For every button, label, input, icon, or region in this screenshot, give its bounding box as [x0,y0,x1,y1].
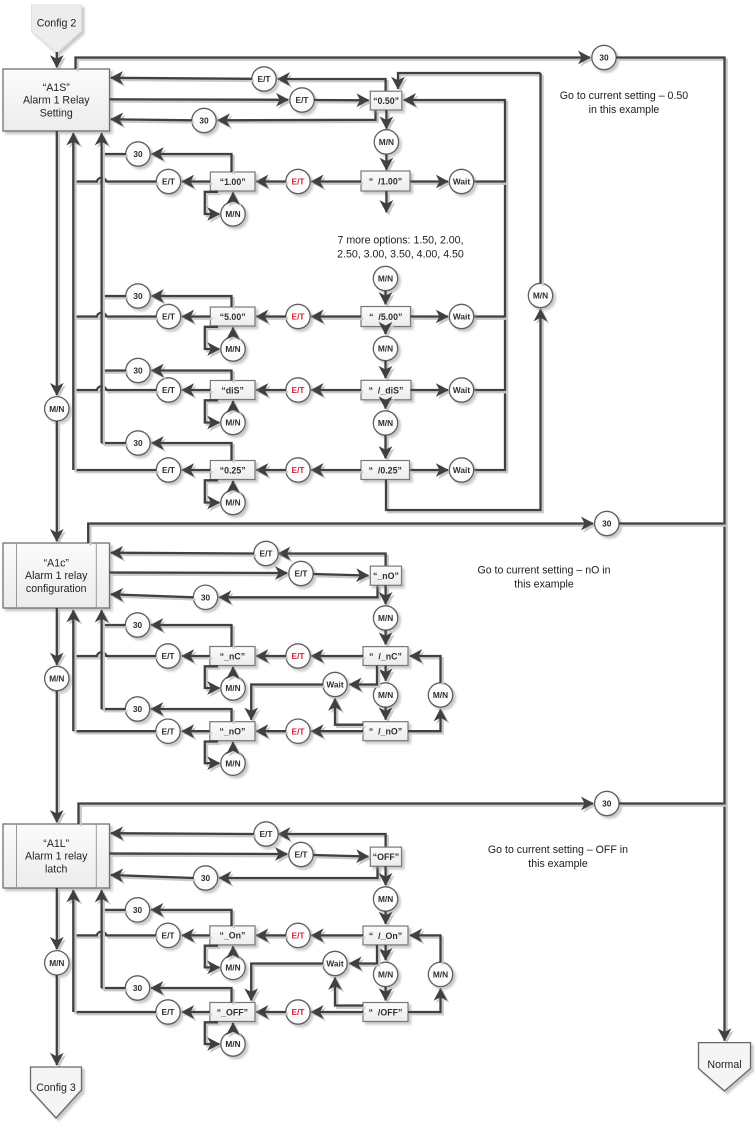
note go to current setting A1L [488,844,628,870]
wire M/N up into box _On A1L [233,946,235,957]
wire /_OFF to Wait bottom A1L [335,978,365,1008]
wire box diS to E/T [182,390,213,392]
wire A1L top to 30 [79,804,596,827]
svg-text:E/T: E/T [296,95,309,105]
wire M/N to /_nC A1c [386,630,388,647]
display box /0.25 [361,461,410,480]
svg-text:Alarm 1 Relay: Alarm 1 Relay [23,95,90,107]
svg-text:“ /0.25”: “ /0.25” [369,465,402,475]
circle Wait A1c [323,672,347,696]
svg-text:E/T: E/T [258,74,271,84]
wire /_OFF to red E/T A1L [311,1012,365,1014]
wire M/N to /5.00 [386,291,388,307]
svg-text:“0.25”: “0.25” [220,465,246,475]
wire 30 A1L to right rail [619,804,726,806]
svg-text:30: 30 [602,519,612,529]
wire top box to 30 row C A1L [219,866,380,880]
svg-text:30: 30 [133,620,143,630]
wire box diS top to 30 [152,371,234,383]
svg-text:Normal: Normal [707,1059,741,1071]
wire M/N rail up to return [541,73,543,286]
off-page connector Config 3 [31,1067,82,1118]
wire /1.00 to more options note [386,191,388,215]
svg-text:“1.00”: “1.00” [220,177,246,187]
wire red E/T to box _On A1L [256,935,288,937]
svg-text:30: 30 [201,592,211,602]
circle E/T row _On A1L [156,923,180,947]
wire box 0.25 top to 30 [152,443,234,463]
wire 0.50 to M/N [386,110,388,131]
svg-text:Setting: Setting [40,107,73,119]
svg-text:E/T: E/T [162,726,175,736]
svg-text:E/T: E/T [292,931,305,941]
circle M/N under box 0.25 [221,490,245,514]
wire M/N up into box 1.00 [233,193,235,205]
svg-text:“5.00”: “5.00” [220,312,246,322]
wire box _nO to E/T A1c [182,731,212,733]
wire box 1.00 top to 30 [152,154,234,174]
svg-text:E/T: E/T [292,726,305,736]
circle M/N return rail [528,283,552,307]
svg-text:E/T: E/T [162,1007,175,1017]
circle E/T row _nO A1c [156,719,180,743]
svg-text:M/N: M/N [225,418,240,428]
circle red E/T row _On A1L [286,923,310,947]
svg-text:“_nO”: “_nO” [219,727,245,737]
svg-text:E/T: E/T [162,177,175,187]
wire /_diS to M/N [386,400,388,411]
wire M/N down to A1c [57,421,59,543]
svg-text:30: 30 [133,983,143,993]
svg-text:M/N: M/N [225,1039,240,1049]
wire box 5.00 top to 30 [152,296,234,309]
wire 30 to A1c row C [111,594,196,599]
svg-text:E/T: E/T [295,569,308,579]
wire 30 collector s1 [102,133,104,445]
svg-text:“ /5.00”: “ /5.00” [369,312,402,322]
svg-text:E/T: E/T [162,931,175,941]
wire E/T to A1c row A [111,553,256,556]
wire 30 to A1L row C [111,875,196,880]
wire E/T row diS to collector with hop [74,386,158,392]
wire box _OFF top to 30 A1L [151,988,234,1005]
svg-text:“ /1.00”: “ /1.00” [369,176,402,186]
circle E/T row _nC A1c [156,644,180,668]
svg-text:30: 30 [201,873,211,883]
wire box _nC top to 30 A1c [151,625,234,649]
wire M/N loop under box 5.00 [205,327,222,351]
wire box _nO top to 30 A1c [151,709,234,724]
wire A1S to E/T row B [110,99,291,102]
circle M/N under box 5.00 [221,337,245,361]
svg-text:“_nO”: “_nO” [373,571,399,581]
svg-text:“ /OFF”: “ /OFF” [369,1007,403,1017]
circle M/N under box _OFF A1L [221,1032,245,1056]
svg-text:M/N: M/N [378,894,393,904]
svg-text:M/N: M/N [49,404,64,414]
wire A1L to E/T row B A1L [110,854,290,857]
wire box _On to E/T A1L [182,935,212,937]
circle 30 s1 row C [192,108,216,132]
process box A1S [3,69,110,131]
circle M/N above /0.25 [373,411,397,435]
svg-text:M/N: M/N [225,344,240,354]
circle M/N right A1L [428,962,452,986]
wire top box to 30 row C A1c [219,585,380,599]
wire E/T row 1.00 to collector with hop [74,178,158,184]
svg-text:Go to current setting – 0.50: Go to current setting – 0.50 [560,90,688,102]
display box /1.00 [361,171,410,191]
svg-text:M/N: M/N [433,690,448,700]
circle M/N left rail s1 [45,397,69,421]
wire M/N to /0.25 [386,435,388,460]
svg-text:E/T: E/T [260,829,273,839]
wire red E/T to box 0.25 [256,470,288,472]
wire top box to M/N A1c [386,585,388,606]
circle E/T row A A1L [254,822,278,846]
wire E/T to A1S row A [111,78,254,81]
wire A1c down to M/N [57,608,59,667]
wire M/N up into box _nO A1c [233,742,235,753]
note 7 more options [337,235,464,261]
circle 30 row _OFF A1L [125,976,149,1000]
wire M/N up into box _nC A1c [233,667,235,678]
wire 30 collector A1c [102,610,104,711]
circle M/N above /_diS [373,336,397,360]
svg-text:M/N: M/N [378,274,393,284]
wire /_nO to Wait bottom A1c [335,699,365,727]
svg-text:configuration: configuration [26,583,87,595]
svg-text:M/N: M/N [225,683,240,693]
wire Wait3 stub [474,390,508,392]
wire /0.25 to Wait [410,470,450,472]
svg-text:Go to current setting – OFF in: Go to current setting – OFF in [488,844,628,856]
wire /diS to Wait [410,390,450,392]
circle E/T row A A1c [254,541,278,565]
wire E/T row _OFF to collector A1L [74,1012,158,1014]
display box /5.00 [361,307,411,327]
wire red E/T to box 1.00 [256,182,288,184]
display box /_nO A1c [363,722,408,741]
svg-text:E/T: E/T [292,1007,305,1017]
wire /_nC to Wait A1c [349,666,379,687]
svg-text:this example: this example [528,858,588,870]
wire E/T row 5.00 to collector with hop [74,313,158,319]
wire E/T row _On to collector with hop A1L [74,932,158,938]
svg-text:30: 30 [133,291,143,301]
wire 0.50 top to E/T [278,79,388,93]
off-page connector Config 2 [32,5,82,53]
circle E/T row B A1c [289,561,313,585]
display box diS [210,381,255,400]
svg-text:30: 30 [133,704,143,714]
circle 30 row 5.00 [126,284,150,308]
wire M/N loop under box 0.25 [205,480,222,504]
svg-text:E/T: E/T [292,312,305,322]
wire /_nC to red E/T A1c [311,656,365,658]
wire red E/T to box diS [256,390,288,392]
display box _nC A1c [210,647,255,666]
circle 30 row diS [126,358,150,382]
svg-text:Go to current setting – nO in: Go to current setting – nO in [477,565,610,577]
circle Wait A1L [323,951,347,975]
svg-text:M/N: M/N [378,690,393,700]
wire M/N to box /1.00 [386,154,388,172]
wire top box to E/T row A A1c [278,554,388,569]
wire 30 A1c to right rail [619,524,726,526]
svg-text:E/T: E/T [295,850,308,860]
svg-text:Config 2: Config 2 [37,18,77,30]
circle E/T s1 row B [290,88,314,112]
svg-text:E/T: E/T [292,465,305,475]
wire /5.00 to M/N [386,327,388,337]
wire /_nC to M/N A1c [386,666,388,683]
wire E/T to A1L row A [111,833,256,836]
wire 30 to right rail down to Normal [616,58,727,1043]
svg-text:M/N: M/N [379,137,394,147]
circle M/N left rail s3 [45,951,69,975]
wire A1S top to 30 timeout circle [76,58,593,72]
wire M/N up into box 5.00 [233,328,235,340]
svg-text:“0.50”: “0.50” [373,96,399,106]
svg-text:“A1c”: “A1c” [44,557,70,569]
display box _nO A1c [370,566,401,585]
svg-text:30: 30 [133,149,143,159]
process box A1c [3,543,110,608]
wire 30 collector A1L [102,890,104,990]
circle Wait row 1.00 [449,169,473,193]
circle 30 top A1c [595,511,619,535]
circle M/N left rail s2 [45,666,69,690]
display box 0.25 [210,461,255,480]
wire Wait to box _nO top A1c [251,685,325,722]
svg-text:“diS”: “diS” [221,385,243,395]
wire 30 row diS to collector [102,371,128,373]
display box _OFF A1L [210,1003,255,1022]
circle Wait row 5.00 [449,304,473,328]
wire box _nC to E/T A1c [182,656,212,658]
wire E/T row 0.25 to collector [74,470,158,472]
svg-text:Wait: Wait [453,312,470,322]
circle Wait row diS [449,378,473,402]
wire /1.00 to Wait [410,182,450,184]
wire M/N to /_nO A1c [386,707,388,722]
svg-text:E/T: E/T [292,385,305,395]
process box A1L [3,824,110,888]
wire E/T to top box row B A1c [313,574,370,578]
svg-text:E/T: E/T [292,177,305,187]
display box 1.00 [210,172,255,191]
wire 0.50 bottom to 30 row C [218,110,378,123]
svg-text:7 more options: 1.50, 2.00,: 7 more options: 1.50, 2.00, [337,235,463,247]
svg-text:30: 30 [133,905,143,915]
circle 30 row 0.25 [126,431,150,455]
wire M/N up into box diS [233,401,235,413]
svg-text:30: 30 [602,799,612,809]
wire 30 to A1S row C [111,119,194,122]
wire return rail into 0.50 top [398,73,543,91]
wire 30 row _nC to collector A1c [102,625,128,627]
wire M/N to /_OFF A1L [386,987,388,1003]
svg-text:E/T: E/T [292,651,305,661]
display box /_nC A1c [363,647,408,666]
svg-text:Config 3: Config 3 [36,1082,76,1094]
svg-text:M/N: M/N [225,498,240,508]
note go to current setting 0.50 [560,90,688,116]
wire M/N to /_On A1L [386,911,388,926]
svg-text:“A1L”: “A1L” [43,838,69,850]
svg-text:M/N: M/N [378,613,393,623]
svg-text:M/N: M/N [378,344,393,354]
wire A1S down to M/N [57,131,59,397]
wire Wait1 stub [474,182,508,184]
wire M/N loop under box diS [205,400,222,424]
wire red E/T to box _OFF A1L [256,1012,288,1014]
svg-text:30: 30 [133,438,143,448]
circle M/N right A1c [428,683,452,707]
svg-text:“ /_diS”: “ /_diS” [369,385,404,395]
circle E/T row 1.00 [156,169,180,193]
wire Wait to box _OFF top A1L [251,964,325,1003]
circle M/N below 0.50 [374,130,398,154]
wire M/N right to /_On A1L [410,935,443,964]
wire 30 row 0.25 to collector [102,443,128,445]
wire /5.00 to Wait [410,317,450,319]
wire E/T collector A1L [73,890,75,1014]
circle E/T row diS [156,378,180,402]
svg-text:Wait: Wait [326,680,343,690]
circle red E/T row 0.25 [286,458,310,482]
svg-text:in this example: in this example [589,104,660,116]
wire M/N loop under box _nO A1c [205,742,222,766]
svg-text:“_OFF”: “_OFF” [217,1007,248,1017]
circle M/N chain2 A1L [373,962,397,986]
wire box 0.25 to E/T [182,470,213,472]
note go to current setting A1c [477,565,610,591]
svg-text:“A1S”: “A1S” [43,82,71,94]
svg-text:Alarm 1 relay: Alarm 1 relay [25,570,88,582]
circle M/N chain2 A1c [373,683,397,707]
display box _nO A1c [210,722,255,741]
svg-text:M/N: M/N [225,209,240,219]
svg-text:M/N: M/N [433,970,448,980]
wire Wait2 stub [474,317,508,319]
display box _On A1L [210,926,255,945]
wire box 1.00 to E/T [182,182,213,184]
circle 30 row _nO A1c [125,697,149,721]
display box /OFF A1L [363,1003,408,1022]
wire M/N down to A1L [57,691,59,825]
svg-text:E/T: E/T [162,312,175,322]
wire A1L down to M/N [57,888,59,951]
wire box _OFF to E/T A1L [182,1012,212,1014]
wire /diS to red E/T [311,390,363,392]
circle M/N above /5.00 [373,266,397,290]
wire E/T row _nC to collector with hop A1c [74,652,158,658]
svg-text:30: 30 [133,366,143,376]
svg-text:M/N: M/N [49,674,64,684]
circle 30 row _nC A1c [125,613,149,637]
wire top box to E/T row A A1L [278,834,388,849]
wire M/N loop under box _OFF A1L [205,1022,222,1046]
circle red E/T row _nC A1c [286,644,310,668]
circle M/N under box _On A1L [221,955,245,979]
wire M/N right to /_nC A1c [410,656,443,685]
wire 30 row _OFF to collector A1L [102,988,128,990]
svg-text:Wait: Wait [326,959,343,969]
wire E/T collector s1 [73,133,75,472]
wire M/N loop under box _On A1L [205,946,222,970]
wire M/N loop under box _nC A1c [205,666,222,690]
svg-text:E/T: E/T [162,385,175,395]
svg-text:M/N: M/N [225,758,240,768]
svg-text:M/N: M/N [49,958,64,968]
wire Wait rail into 0.50 right [404,100,507,472]
wire E/T to 0.50 row B [314,100,371,103]
svg-text:Wait: Wait [453,465,470,475]
wire 30 row _On to collector A1L [102,910,128,912]
wire A1c top to 30 [88,524,595,546]
svg-text:M/N: M/N [378,970,393,980]
wire /_On to red E/T A1L [311,935,365,937]
wire M/N loop under box 1.00 [205,192,222,216]
svg-text:E/T: E/T [162,465,175,475]
svg-text:30: 30 [599,53,609,63]
wire M/N up into box 0.25 [233,481,235,493]
circle E/T row _OFF A1L [156,1000,180,1024]
circle 30 row C A1c [193,585,217,609]
circle red E/T row _OFF A1L [286,1000,310,1024]
svg-text:“ /_nC”: “ /_nC” [369,651,402,661]
circle red E/T row diS [286,378,310,402]
wire Config2 to A1S [57,52,59,70]
circle red E/T row 1.00 [286,169,310,193]
svg-text:M/N: M/N [378,418,393,428]
wire 30 row 1.00 to collector [102,154,128,156]
wire 30 row 5.00 to collector [102,296,128,298]
circle M/N under box _nC A1c [221,676,245,700]
circle E/T row 5.00 [156,304,180,328]
display box OFF A1L [370,847,401,866]
wire top box to M/N A1L [386,866,388,887]
circle Wait row 0.25 [449,458,473,482]
circle E/T row B A1L [289,842,313,866]
svg-text:“OFF”: “OFF” [373,852,399,862]
wire 30 row _nO to collector A1c [102,709,128,711]
wire E/T collector A1c [73,610,75,733]
svg-text:M/N: M/N [225,963,240,973]
wire red E/T to box _nC A1c [256,656,288,658]
circle E/T row 0.25 [156,458,180,482]
wire A1c to E/T row B A1c [110,573,290,576]
display box /_On A1L [363,926,408,945]
circle M/N chain1 A1L [373,887,397,911]
circle 30 row _On A1L [125,898,149,922]
wire E/T to top box row B A1L [313,855,370,859]
svg-text:“_nC”: “_nC” [220,651,245,661]
wire /1.00 to red E/T [311,182,363,184]
wire red E/T to box 5.00 [256,317,288,319]
svg-text:E/T: E/T [260,549,273,559]
wire /_On to Wait A1L [349,945,379,966]
wire M/N up into box _OFF A1L [233,1023,235,1034]
circle M/N under box _nO A1c [221,751,245,775]
wire /_OFF to M/N right A1L [408,989,443,1015]
svg-text:Alarm 1 relay: Alarm 1 relay [25,851,88,863]
circle M/N under box diS [221,410,245,434]
circle 30 row C A1L [193,866,217,890]
wire /_On to M/N A1L [386,945,388,962]
